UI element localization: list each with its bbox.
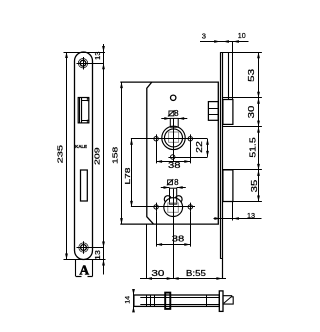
svg-text:35: 35 xyxy=(250,179,259,192)
svg-text:158: 158 xyxy=(110,147,119,164)
follower crosshair horizontal xyxy=(131,138,208,140)
svg-text:22: 22 xyxy=(195,140,204,152)
svg-text:A: A xyxy=(79,262,89,277)
handle follower hole (outer circles) xyxy=(162,126,185,149)
top screw hole xyxy=(80,60,86,66)
faceplate edge view right line / extension to bottom dim xyxy=(222,52,224,278)
WC 8mm tab above xyxy=(170,188,177,204)
svg-text:B:55: B:55 xyxy=(186,269,207,278)
WC crosshair horizontal xyxy=(131,206,195,208)
left fixing hole of WC hub xyxy=(154,205,158,209)
svg-text:8: 8 xyxy=(174,178,179,187)
lock body outline with chamfered left corners xyxy=(120,82,218,224)
square-8 label for WC hub xyxy=(168,180,173,185)
follower hub in side view xyxy=(165,293,170,309)
svg-text:51.5: 51.5 xyxy=(249,137,258,158)
follower crosshair vertical xyxy=(173,118,175,162)
svg-text:KALE: KALE xyxy=(75,144,87,149)
svg-text:53: 53 xyxy=(247,68,256,82)
view label A box xyxy=(75,260,77,277)
bottom dimension 30 and B:55 xyxy=(146,224,148,279)
svg-text:30: 30 xyxy=(151,269,165,278)
WC faint square spindle hole xyxy=(168,203,179,212)
dimension 14 (case thickness) xyxy=(133,290,135,313)
dimension 22 (follower to small hole) xyxy=(207,139,209,157)
svg-text:8: 8 xyxy=(174,109,179,118)
side view internal verticals xyxy=(146,295,148,306)
svg-text:13: 13 xyxy=(93,51,102,60)
deadbolt top extension line xyxy=(223,169,262,171)
svg-text:13: 13 xyxy=(93,250,102,260)
WC crosshair vertical / extension to bottom dimension xyxy=(173,189,175,279)
faceplate edge inner line upper xyxy=(228,52,230,99)
dimension line 209 with 13 offsets xyxy=(103,44,105,275)
bottom screw hole xyxy=(81,245,87,251)
small hole below follower xyxy=(171,155,175,159)
follower 8mm tab above xyxy=(170,118,178,127)
svg-text:38: 38 xyxy=(168,161,181,170)
latch bolt tip in side view with bevel xyxy=(223,296,233,304)
latch cutout in faceplate xyxy=(78,98,89,123)
svg-text:38: 38 xyxy=(172,235,185,244)
svg-text:3: 3 xyxy=(202,32,206,41)
svg-text:14: 14 xyxy=(124,295,131,303)
follower faint square spindle hole xyxy=(169,132,179,142)
WC spindle hub with lobes xyxy=(164,196,171,203)
latch top extension line xyxy=(223,97,262,99)
dimension 38 under WC hub xyxy=(156,211,158,246)
right side dimension chain 53 30 51.5 35 xyxy=(258,52,260,201)
svg-text:30: 30 xyxy=(247,105,256,118)
right fixing hole of follower xyxy=(188,137,192,141)
deadbolt face extension line down xyxy=(232,202,234,221)
deadbolt bottom extension line xyxy=(223,201,262,203)
right fixing hole of WC hub xyxy=(188,205,192,209)
deadbolt protruding through faceplate xyxy=(223,170,233,202)
svg-text:L78: L78 xyxy=(125,167,132,184)
faceplate front view outline (view A) xyxy=(75,52,93,260)
square-8 label for follower xyxy=(169,111,174,116)
faceplate in side view xyxy=(219,291,223,312)
faceplate edge view left line xyxy=(220,52,222,259)
dimension 158 (body height) xyxy=(121,82,123,224)
dimension 235 (faceplate length) xyxy=(66,52,68,260)
dimension L78 (follower to WC centre) xyxy=(131,139,133,207)
svg-text:235: 235 xyxy=(56,145,65,163)
dimension 3 and 10 at top xyxy=(200,41,249,43)
svg-text:10: 10 xyxy=(238,31,246,40)
latch bolt head inside body xyxy=(208,102,218,121)
lock case side view outline xyxy=(134,295,219,306)
dimension 38 under follower xyxy=(156,143,158,163)
faceplate top reference line xyxy=(64,52,106,54)
latch bottom extension line xyxy=(223,126,262,128)
small hole near body top xyxy=(171,95,176,100)
faceplate bottom reference line xyxy=(64,259,106,261)
side view vertical near right xyxy=(206,295,208,306)
dimension 13 (deadbolt throw) xyxy=(214,218,262,220)
top reference line to 53 dimension xyxy=(223,52,262,54)
faceplate edge top cap xyxy=(220,52,228,54)
deadbolt cutout in faceplate xyxy=(81,170,88,201)
latch bolt protruding through faceplate xyxy=(223,100,233,125)
svg-text:13: 13 xyxy=(247,211,255,220)
left fixing hole of follower xyxy=(154,137,158,141)
svg-text:209: 209 xyxy=(92,147,101,165)
